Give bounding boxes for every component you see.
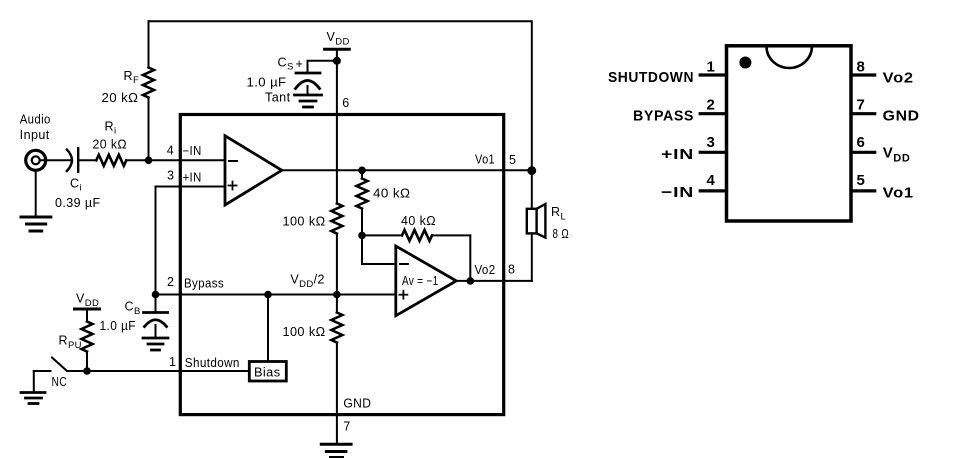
svg-text:1: 1 <box>169 355 176 369</box>
wire 100k to GND pin7 <box>336 343 338 444</box>
capacitor CB <box>144 295 168 337</box>
wire Ci to Ri <box>78 159 96 161</box>
svg-text:Vo1: Vo1 <box>883 185 914 202</box>
wire VDD rail down pin 6 <box>336 49 338 203</box>
svg-text:1.0 µF: 1.0 µF <box>247 76 287 90</box>
svg-text:NC: NC <box>52 375 68 389</box>
svg-text:+IN: +IN <box>661 146 694 163</box>
resistor 40k horizontal <box>362 230 470 241</box>
svg-text:GND: GND <box>343 397 371 411</box>
svg-text:100 kΩ: 100 kΩ <box>283 214 326 228</box>
svg-text:1.0 µF: 1.0 µF <box>100 319 137 333</box>
speaker RL <box>527 171 546 281</box>
pin 7 stub <box>851 112 875 115</box>
junction 40k node <box>358 232 366 240</box>
junction Vo1 at speaker <box>527 166 536 175</box>
pin1 dot <box>739 57 751 69</box>
notch <box>767 47 812 69</box>
svg-text:8: 8 <box>508 263 515 277</box>
svg-text:6: 6 <box>857 134 866 151</box>
wire Ri to node -IN <box>126 159 225 161</box>
svg-text:4: 4 <box>167 143 174 157</box>
svg-text:GND: GND <box>883 108 920 125</box>
svg-text:−IN: −IN <box>183 144 202 158</box>
capacitor CS <box>296 73 321 89</box>
svg-text:40 kΩ: 40 kΩ <box>373 186 411 200</box>
pin 6 stub <box>851 151 875 154</box>
svg-text:Audio: Audio <box>20 113 51 127</box>
svg-text:Vo2: Vo2 <box>883 69 914 86</box>
svg-text:5: 5 <box>857 172 866 189</box>
resistor Ri <box>96 155 126 166</box>
op-amp A2 <box>396 246 457 316</box>
package body <box>727 46 852 221</box>
pin 3 stub <box>700 151 726 154</box>
junction shutdown node <box>83 367 91 375</box>
svg-text:Vo2: Vo2 <box>475 263 496 277</box>
resistor 40k vertical <box>357 170 368 235</box>
svg-text:40 kΩ: 40 kΩ <box>401 214 436 228</box>
junction VDD at CS <box>333 57 341 65</box>
wire 40k node to A2 minus input <box>362 235 396 264</box>
pin 4 stub <box>700 189 726 192</box>
svg-text:0.39 µF: 0.39 µF <box>55 196 101 210</box>
VDD supply bar <box>325 48 350 51</box>
ground (CB) <box>143 338 168 350</box>
wire A2 output to Vo2 <box>456 280 532 282</box>
ground (audio input) <box>21 217 51 231</box>
svg-text:Tant: Tant <box>265 90 291 104</box>
resistor 100k lower <box>331 313 342 343</box>
node junction at -IN <box>145 157 153 165</box>
svg-text:Bias: Bias <box>254 366 281 380</box>
wire connector to ground <box>35 171 37 216</box>
junction bias branch <box>264 291 272 299</box>
wire CS to ground <box>307 86 309 94</box>
svg-text:+: + <box>296 57 304 71</box>
VDD supply bar (pullup) <box>75 308 100 311</box>
svg-text:+IN: +IN <box>183 170 202 184</box>
switch S1 <box>34 358 87 392</box>
svg-text:20 kΩ: 20 kΩ <box>102 91 139 105</box>
wire bias riser <box>267 295 269 362</box>
wire top feedback run <box>149 21 532 170</box>
ground (CS) <box>295 95 322 107</box>
svg-text:Av = −1: Av = −1 <box>402 274 439 288</box>
svg-text:Bypass: Bypass <box>184 276 224 290</box>
svg-text:3: 3 <box>707 134 716 151</box>
svg-text:BYPASS: BYPASS <box>633 107 694 124</box>
junction bypass external <box>152 291 160 299</box>
pin 8 stub <box>851 73 875 76</box>
junction Vo1 at 40k branch <box>358 167 366 175</box>
capacitor Ci <box>67 148 78 171</box>
audio input connector J1 <box>26 150 46 170</box>
wire 100k to VDD/2 node <box>336 234 338 313</box>
svg-text:Shutdown: Shutdown <box>185 356 240 370</box>
op-amp A1 <box>225 136 282 205</box>
svg-text:Input: Input <box>20 128 50 142</box>
wire shutdown rail <box>87 370 249 372</box>
resistor 100k upper <box>331 204 342 234</box>
svg-text:Vo1: Vo1 <box>475 153 495 167</box>
svg-text:8 Ω: 8 Ω <box>553 227 570 241</box>
svg-text:7: 7 <box>857 97 866 114</box>
svg-text:7: 7 <box>343 420 350 434</box>
ground (pin 7) <box>321 444 351 457</box>
svg-text:6: 6 <box>342 96 349 110</box>
wire bypass rail <box>156 294 396 296</box>
svg-text:4: 4 <box>707 172 716 189</box>
resistor RPU <box>82 309 93 371</box>
wire +IN pin3 <box>156 187 226 295</box>
junction Vo2 <box>467 277 475 285</box>
wire VDD to CS <box>308 61 337 72</box>
svg-text:20 kΩ: 20 kΩ <box>93 138 128 152</box>
pin 5 stub <box>851 189 875 192</box>
pin 1 stub <box>700 73 726 76</box>
svg-text:−IN: −IN <box>661 184 694 201</box>
wire connector to Ci <box>40 159 72 161</box>
svg-text:5: 5 <box>509 153 516 167</box>
IC boundary box U1 <box>180 115 503 415</box>
svg-text:2: 2 <box>707 97 716 114</box>
pin 2 stub <box>700 112 726 115</box>
ground (NC) <box>21 393 45 404</box>
wire output A1 to Vo1 <box>282 169 532 171</box>
svg-text:2: 2 <box>167 275 174 289</box>
wire feedback riser to Vo2 <box>469 235 471 281</box>
resistor RF (feedback) <box>143 21 154 160</box>
svg-text:SHUTDOWN: SHUTDOWN <box>608 69 694 86</box>
svg-text:100 kΩ: 100 kΩ <box>283 325 326 339</box>
svg-text:1: 1 <box>707 59 716 76</box>
svg-text:3: 3 <box>167 168 174 182</box>
bias box <box>249 362 286 382</box>
junction VDD/2 <box>333 291 341 299</box>
svg-text:8: 8 <box>857 59 866 76</box>
